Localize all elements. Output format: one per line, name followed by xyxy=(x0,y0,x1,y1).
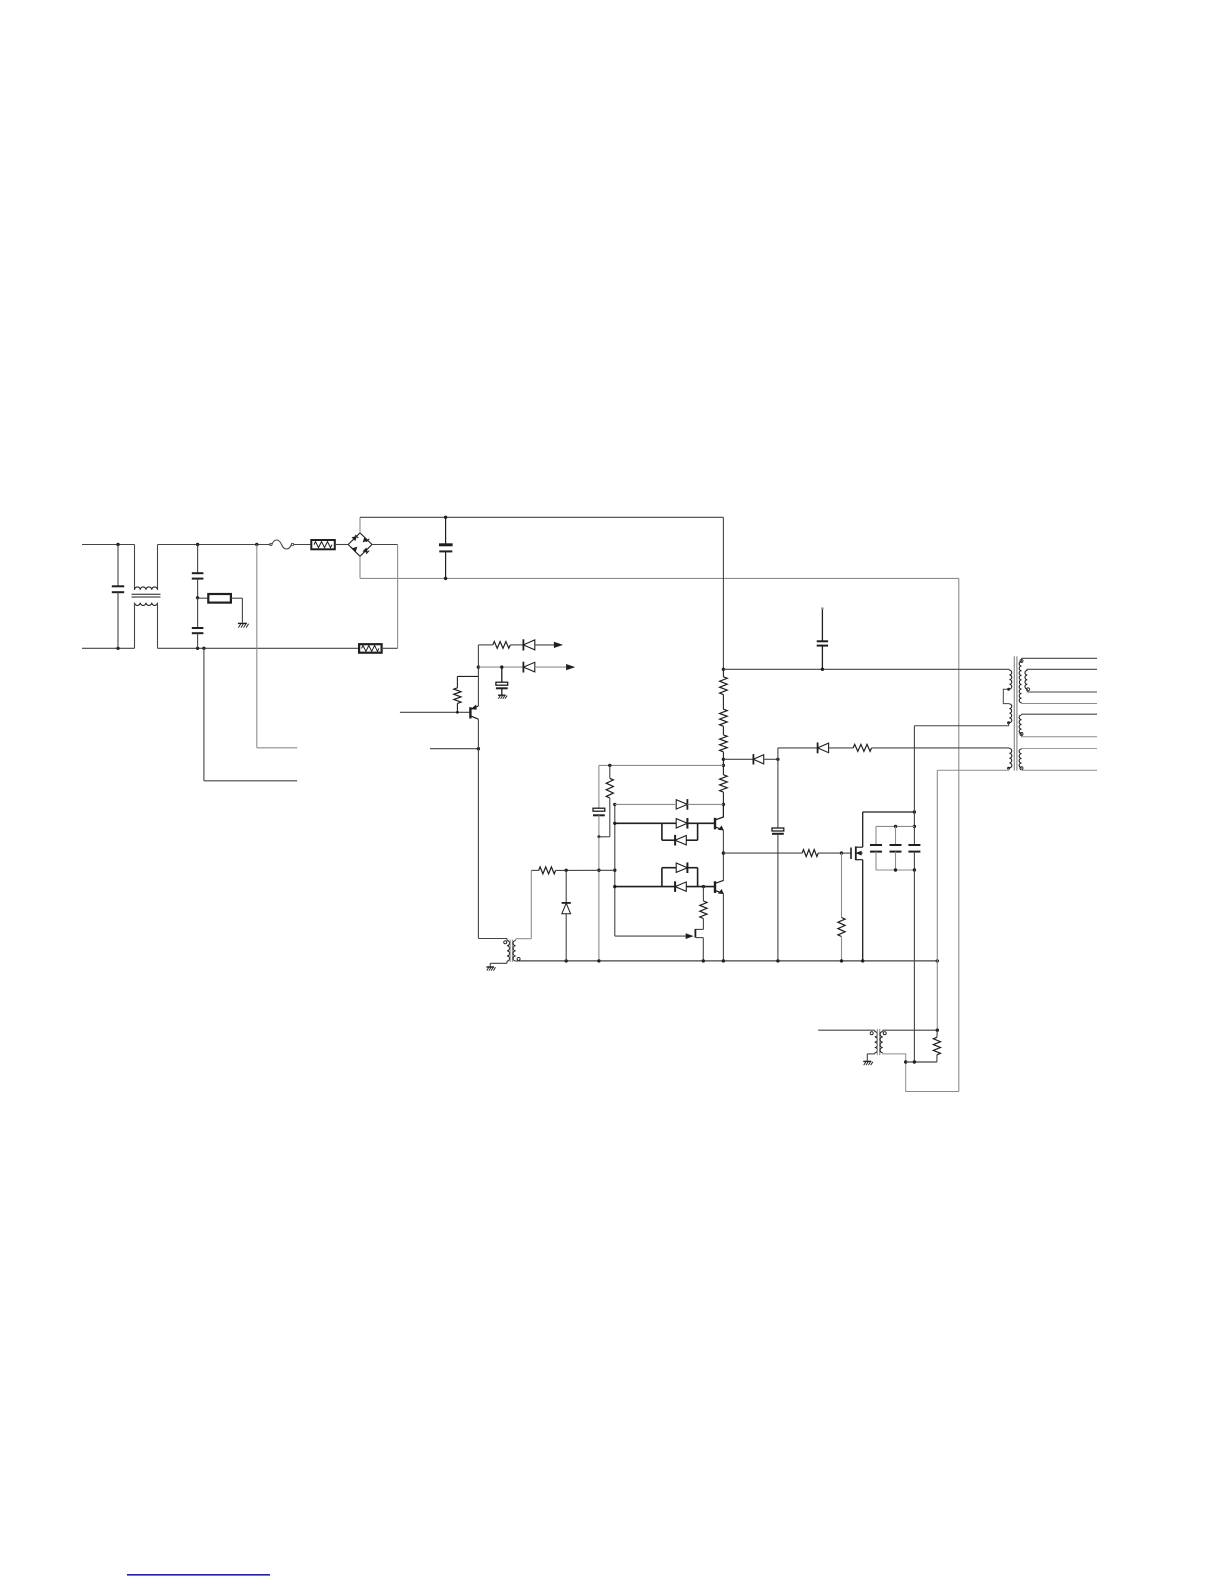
transistor Q2 NPN upper driver xyxy=(714,818,716,830)
diode D7 on Q2 base line (pointing right) xyxy=(662,822,676,824)
transformer T1 primary winding upper xyxy=(1008,668,1010,671)
wire secondary 4 return xyxy=(1021,768,1023,771)
transformer T1 secondary winding 3 xyxy=(1022,713,1098,715)
resistor R1 discharge (boxed) to earth xyxy=(198,597,209,599)
wire DC+ rail xyxy=(360,516,723,518)
bridge rectifier D1 diamond xyxy=(348,533,372,556)
wire gray feedback line with diode D6 xyxy=(615,803,675,805)
resistor R13 gate xyxy=(802,850,818,857)
wire control bus vertical x=614.8 xyxy=(614,804,616,936)
node junction snubber bottom mid xyxy=(894,868,897,871)
wire T2 secondary top riser xyxy=(530,870,532,938)
diode D3 on signal line 2 (cathode left) xyxy=(522,662,524,673)
node junction zener line crossing xyxy=(597,869,600,872)
transistor Q5 power MOSFET xyxy=(850,848,852,860)
diode D2 on signal line 1 (cathode left) xyxy=(522,639,524,650)
diode D4 clamp (cathode left) to aux node xyxy=(723,758,753,760)
transistor Q1 PNP xyxy=(469,707,471,718)
resistor R10 aux filter xyxy=(853,744,871,751)
wire bridge AC2 to neutral riser xyxy=(372,544,398,546)
node junction rail Q3 emitter xyxy=(722,959,725,962)
wire Q3 base line with diode D10 (cathode left) xyxy=(615,886,675,888)
resistor R9 divider d xyxy=(722,765,724,774)
resistor R11 parallel of C8 xyxy=(608,764,611,767)
wire bridge negative riser xyxy=(359,556,361,578)
diode D8 anti-parallel under Q2 base line (cathode left) xyxy=(661,823,663,840)
node junction snubber bottom right xyxy=(913,868,916,871)
node junction Y-cap chain bottom xyxy=(196,647,199,650)
wire R2 to bridge AC1 xyxy=(335,544,348,546)
wire main control ground rail xyxy=(519,960,938,962)
wire signal line 2 (to other sheet) xyxy=(478,666,523,668)
node junction Q2 base line start xyxy=(613,822,616,825)
node junction filter cap on line 2 xyxy=(500,665,503,668)
transformer T2 drive xyxy=(505,938,507,940)
resistor R4 Q1 base-emitter xyxy=(456,703,458,712)
node junction rail zener xyxy=(565,959,568,962)
capacitor C3 Y-cap lower xyxy=(197,598,199,628)
wire snubber return drop xyxy=(913,870,915,1062)
capacitor C1 X-cap across mains xyxy=(117,545,119,587)
resistor R6 divider a xyxy=(722,669,724,677)
wire signal line 1 (to other sheet) xyxy=(478,644,492,646)
diode D5 aux rectifier (cathode left) xyxy=(817,743,819,754)
resistor R15 zener feed xyxy=(539,867,556,874)
transformer T1 core xyxy=(1013,656,1015,770)
node junction startup tap top xyxy=(255,543,258,546)
resistor R5 on signal line 1 xyxy=(493,642,511,649)
wire Q2 emitter down xyxy=(722,830,724,881)
wire zener feed line xyxy=(531,869,538,871)
transformer T1 secondary winding 4 xyxy=(1022,747,1098,749)
wire HV riser from DC+ rail xyxy=(722,517,724,669)
node junction X-cap top xyxy=(116,543,119,546)
node junction primary tap xyxy=(1007,688,1010,691)
wire R1 to earth ground xyxy=(231,597,243,599)
wire aux line to transformer aux winding xyxy=(872,747,1010,749)
wire Q1 collector drop to drive transformer xyxy=(477,719,479,938)
capacitor C11 snubber xyxy=(913,826,915,845)
wire primary tap jog xyxy=(1003,689,1009,703)
node junction stub cap xyxy=(821,668,824,671)
wire snubber bottom rail xyxy=(876,869,914,871)
node junction rail right end xyxy=(936,959,939,962)
wire Q2 collector to divider xyxy=(722,804,724,817)
resistor R16 burden xyxy=(936,1055,938,1062)
wire secondary 1 return xyxy=(1021,702,1023,705)
capacitor C6 electrolytic on line 2 to earth xyxy=(501,667,503,682)
ground earth E4 xyxy=(863,1060,871,1062)
node junction T3 / aux return xyxy=(936,1029,939,1032)
capacitor C9 snubber xyxy=(870,844,882,846)
wire Q5 source to rail xyxy=(862,860,864,961)
node junction snubber return joins xyxy=(913,1060,916,1063)
capacitor C7 electrolytic aux filter xyxy=(777,759,779,828)
footer blue underline xyxy=(127,1574,270,1576)
wire T2 right winding bottom to rail xyxy=(516,960,519,962)
node junction Y-cap chain top xyxy=(196,543,199,546)
capacitor C2 Y-cap upper xyxy=(197,545,199,574)
capacitor C10 snubber xyxy=(895,826,897,845)
wire T3 primary feed stub xyxy=(818,1029,872,1031)
node junction zener top xyxy=(565,869,568,872)
resistor R7 divider b xyxy=(720,709,728,726)
node junction gate / pulldown xyxy=(840,851,843,854)
transformer T1 secondary winding 1 xyxy=(1020,659,1023,662)
node junction snubber cap top xyxy=(776,758,779,761)
node junction primary bottom xyxy=(1007,721,1010,724)
transformer T1 primary winding lower xyxy=(1009,704,1011,723)
node junction base resistor xyxy=(456,711,459,714)
node junction Q1 emitter / signal line xyxy=(477,665,480,668)
wire bottom stub tap vertical xyxy=(203,648,205,781)
node junction gate drive xyxy=(722,851,725,854)
wire secondary 3 return xyxy=(1021,734,1023,737)
wire DC- rail drop on right xyxy=(958,578,960,1091)
wire Q4 gate line xyxy=(615,935,689,937)
wire drain bus vertical x=914.4 xyxy=(913,726,915,827)
node junction bottom stub tap xyxy=(202,647,205,650)
node junction snubber top rail xyxy=(913,825,916,828)
transistor Q4 sense MOSFET xyxy=(702,919,704,930)
node junction Q1 collector stub xyxy=(477,747,480,750)
wire Q3 emitter to rail xyxy=(722,894,724,961)
node junction drain bus xyxy=(913,810,916,813)
transistor Q3 NPN lower driver xyxy=(714,881,716,893)
wire T3 secondary bottom return (gray) xyxy=(883,1053,959,1092)
node junction RC join xyxy=(597,835,600,838)
ground earth E2 xyxy=(498,694,506,696)
wire neutral riser to bridge xyxy=(382,647,398,649)
wire primary bottom to drain bus xyxy=(914,723,1008,726)
wire gate drive from Q2/Q3 node xyxy=(723,852,802,854)
arrow out signal line 2 xyxy=(567,665,575,670)
wire aux bottom return xyxy=(937,768,1008,770)
node junction zener line end xyxy=(613,869,616,872)
resistor R2 fusible (boxed with zigzag) xyxy=(311,540,335,549)
wire startup tap vertical from AC line xyxy=(256,545,258,748)
fuse F1 xyxy=(270,543,272,545)
node junction primary top feed xyxy=(722,668,725,671)
wire T3 secondary top to R16 xyxy=(883,1029,938,1031)
wire stub to Q1 base from left xyxy=(400,711,471,713)
wire gray vertical left branch xyxy=(598,765,600,808)
wire fuse to fusible resistor xyxy=(294,544,312,546)
resistor R12 sense xyxy=(702,887,704,901)
inductor L1 common-mode choke xyxy=(134,545,136,590)
wire AC neutral input bottom xyxy=(82,647,135,649)
node junction snubber top mid xyxy=(894,825,897,828)
resistor R8 divider c xyxy=(720,735,728,752)
arrow out signal line 1 xyxy=(554,642,562,647)
node junction bulk cap bottom xyxy=(444,577,447,580)
node junction rail Q4 source xyxy=(702,959,705,962)
wire primary top feed line xyxy=(723,668,1009,670)
node junction rail R14 xyxy=(840,959,843,962)
capacitor C5 bulk electrolytic xyxy=(445,517,447,544)
node junction Q3 base line start xyxy=(613,885,616,888)
wire DC- rail xyxy=(360,577,959,579)
wire T3 primary bottom to earth xyxy=(874,1053,876,1054)
node junction Y-cap midpoint xyxy=(196,596,199,599)
wire AC line input top xyxy=(82,544,135,546)
diode D11 zener (cathode up) xyxy=(565,870,567,903)
wire aux winding feed riser xyxy=(777,748,779,759)
ground earth E3 xyxy=(486,966,494,968)
node junction clamp diode line xyxy=(722,758,725,761)
node junction rail gray branch xyxy=(597,959,600,962)
wire aux supply line left (gray) xyxy=(599,764,724,766)
transformer T3 current sense xyxy=(870,1032,873,1035)
node junction X-cap bottom xyxy=(116,647,119,650)
capacitor C8 electrolytic control xyxy=(593,808,605,811)
diode D6 (cathode right, pointing right) xyxy=(686,799,688,810)
transformer T1 secondary winding 2 xyxy=(1027,668,1098,670)
node open terminal stub cap top xyxy=(821,607,824,610)
wire AC neutral bottom (after choke) to resistor xyxy=(158,647,360,649)
wire T2 left winding bottom to earth xyxy=(506,961,508,963)
transformer T1 aux winding xyxy=(1009,748,1011,768)
wire Q1 emitter riser xyxy=(477,667,479,706)
wire Q5 drain riser xyxy=(862,812,864,847)
wire bridge positive riser xyxy=(359,517,361,533)
node junction sense network xyxy=(702,885,705,888)
wire R16 bottom line xyxy=(906,1061,937,1063)
wire Q2 base line xyxy=(615,822,662,824)
node junction rail Q5 source xyxy=(861,959,864,962)
wire AC line top (after choke) to fuse xyxy=(158,544,271,546)
resistor R3 inrush (boxed) on neutral xyxy=(359,644,382,653)
diode D9 above Q3 base line (pointing right) xyxy=(662,867,676,869)
capacitor C12 stub xyxy=(821,646,823,670)
wire stub to Q1 collector from left xyxy=(430,748,478,750)
node junction T3 return / R16 bottom line xyxy=(904,1060,907,1063)
node junction aux supply line xyxy=(722,764,725,767)
node junction bulk cap top xyxy=(444,516,447,519)
node junction gray feedback start xyxy=(613,803,616,806)
wire snubber top rail xyxy=(876,825,914,827)
wire secondary 2 return xyxy=(1026,689,1028,692)
resistor R14 gate pulldown xyxy=(841,853,843,917)
node junction rail C7 xyxy=(776,959,779,962)
node junction aux bottom xyxy=(1007,767,1010,770)
ground earth E1 xyxy=(238,622,247,624)
node junction gray feedback line xyxy=(722,803,725,806)
